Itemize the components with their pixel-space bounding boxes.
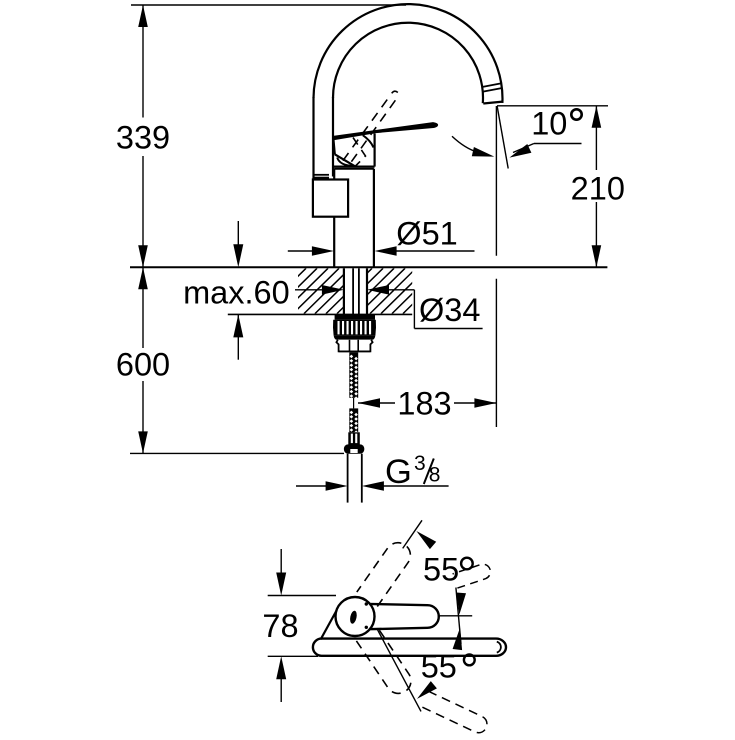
dimension 339 vertical line: [142, 5, 144, 118]
top view: spout right cap outer: [496, 639, 506, 656]
mounting nut knurled body: [333, 320, 376, 336]
dashed raised handle line lower: [351, 98, 397, 162]
arrow down at axis: [456, 593, 466, 615]
handle lever blade: [334, 123, 438, 140]
flow arc: [452, 136, 478, 152]
aerator band lines: [482, 83, 502, 87]
braided hose upper segment: [349, 352, 358, 397]
svg-text:210: 210: [571, 171, 625, 207]
arrow down 210: [592, 245, 602, 267]
hose gap thin line: [353, 398, 355, 409]
G3/8 left arrow: [296, 485, 326, 487]
svg-text:78: 78: [262, 608, 298, 644]
deck bottom line: [228, 313, 412, 315]
svg-text:600: 600: [116, 346, 170, 382]
body bottom-left arc: [337, 158, 354, 166]
svg-text:8: 8: [429, 464, 441, 487]
top view: tangent line pivot to band: [321, 610, 337, 640]
deck hatching: [238, 268, 471, 313]
svg-text:55: 55: [421, 649, 457, 685]
upper 55 slant line: [403, 520, 422, 548]
body bottom line: [333, 166, 375, 168]
shank outer edges: [343, 268, 345, 314]
riser pipe right edge: [332, 97, 334, 177]
mounting nut top band: [335, 315, 375, 320]
top view: small dashed capsule upper: [453, 564, 491, 588]
78 bottom arrow: [280, 679, 282, 702]
max.60 upper arrow: [237, 221, 239, 252]
Ø34 right arrow: [389, 289, 414, 291]
outlet vertical extension line: [495, 106, 497, 256]
lower 55 arrowhead at slant: [417, 681, 437, 699]
knurl stripes: [338, 321, 340, 334]
column top line: [334, 168, 374, 170]
countertop deck top line: [130, 266, 607, 268]
Ø51 left arrow: [288, 250, 322, 252]
top view: dashed handle rotated up 55: [357, 543, 411, 607]
78 bottom extension line: [268, 655, 318, 657]
top view: spout band bottom edge: [322, 655, 497, 657]
arrow up 339: [138, 5, 148, 27]
nut lower trapezoid: [336, 340, 372, 352]
max.60 lower arrow: [237, 314, 239, 359]
svg-text:3: 3: [414, 452, 426, 475]
column left edge: [333, 169, 335, 180]
shank inner tube lines: [352, 268, 354, 314]
angular arc segment: [456, 588, 461, 644]
svg-text:G: G: [385, 453, 412, 491]
arrow down 600: [138, 431, 148, 453]
arrow up at axis: [453, 628, 463, 650]
flow arc arrowhead: [472, 147, 495, 157]
dashed raised handle tip cap: [392, 91, 398, 93]
arrow down 339: [138, 245, 148, 267]
spout outlet end edge: [483, 102, 502, 104]
extension line outlet level: [497, 105, 608, 107]
Ø51 right arrow: [386, 250, 475, 252]
78 top arrow: [280, 549, 282, 573]
extension line hose end: [130, 452, 344, 454]
Ø34 leader elbow: [413, 290, 415, 329]
column right edge: [373, 169, 375, 267]
top view: spout right cap inner: [497, 642, 501, 653]
svg-text:Ø51: Ø51: [396, 216, 457, 252]
hose crimp sleeve: [348, 432, 360, 444]
body diagonal: [335, 154, 355, 166]
braided hose lower segment: [349, 408, 358, 432]
top view: spout band top edge: [322, 637, 497, 639]
top view: spout band left cap: [313, 639, 322, 656]
connection tube below nut: [347, 454, 349, 503]
spout inner arc: [333, 23, 483, 103]
dashed raised handle line upper: [343, 95, 391, 161]
10deg arrowhead: [509, 144, 531, 158]
body left edge: [333, 139, 334, 155]
top view: dashed handle rotated down 55: [356, 627, 411, 694]
riser pipe end joint lines: [314, 174, 330, 176]
Ø34 left arrow: [295, 289, 322, 291]
dimension 210 vertical line: [595, 106, 597, 170]
hose end nut: [344, 444, 364, 453]
riser pipe left edge: [312, 97, 314, 180]
top view: lever hole blob: [349, 610, 358, 624]
top view: small dashed capsule lower: [422, 692, 487, 733]
G3/8 right arrow: [362, 481, 384, 491]
183 right arrow: [474, 398, 496, 408]
water stream 10deg line: [497, 106, 508, 169]
dashed handle heel polyline: [353, 138, 366, 167]
mounting nut bottom band: [334, 335, 376, 339]
spout outer arc: [314, 4, 503, 103]
top view: lever capsule: [367, 604, 439, 629]
svg-text:Ø34: Ø34: [419, 292, 480, 328]
arrow up 600: [138, 267, 148, 289]
svg-text:55: 55: [423, 551, 459, 587]
dimension 600 vertical line: [142, 267, 144, 348]
svg-text:10: 10: [531, 105, 567, 141]
svg-text:339: 339: [116, 120, 170, 156]
183 left arrow: [358, 398, 380, 408]
extension line: top of spout: [131, 4, 406, 6]
lever axis reference line: [438, 615, 473, 617]
arrow up 210: [592, 106, 602, 128]
78 top extension line: [268, 595, 336, 597]
hose edges in trapezoid: [349, 340, 351, 352]
lever neck arc: [363, 135, 374, 147]
top view: pivot circle: [336, 597, 375, 636]
svg-text:max.60: max.60: [183, 275, 290, 311]
svg-text:183: 183: [397, 386, 451, 422]
10deg leader: [534, 143, 582, 145]
lower 55 slant line: [377, 628, 421, 711]
upper 55 arrowhead at slant: [416, 531, 436, 549]
body right edge: [374, 134, 376, 167]
side connection box: [313, 180, 348, 217]
